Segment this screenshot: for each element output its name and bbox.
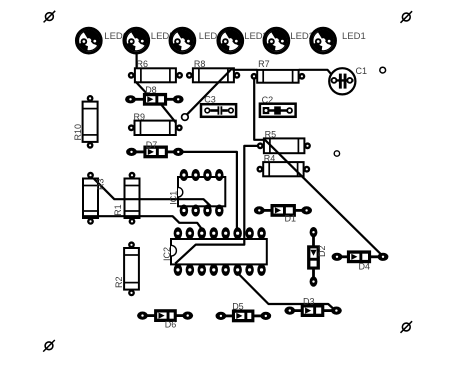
diode D8 leads [131,98,145,101]
wire R6 corner to D8 (diagonal) [136,82,148,95]
diode D7 body [143,146,168,159]
IC2 pin 9 bottom pad [257,264,266,276]
resistor R7 right pad [299,73,306,80]
IC2 pin 2 top pad [186,227,195,239]
svg-text:D1: D1 [285,214,297,224]
LED LED1 [311,28,336,53]
wire R3 to IC1 pad [94,179,211,206]
resistor R1 body [125,179,140,219]
svg-text:IC1: IC1 [168,191,178,205]
wire R7 pad down to R5 corner [254,79,264,140]
LED LED6 [77,28,102,53]
diode D1 left pad [254,206,265,214]
IC2 pin 15 bottom pad [186,264,195,276]
IC2 body [171,239,267,264]
via hole near C1 [380,67,386,73]
diode D5 leads [221,314,233,317]
resistor R8 right pad [234,72,241,79]
wire D7 to IC2 pin 6 [178,152,237,230]
IC1 pin 5 bottom pad [215,205,224,217]
diode D6 leads [143,314,156,317]
wire D8 to R9 corner (diagonal) [161,104,176,123]
capacitor C3 [201,104,236,117]
svg-text:D7: D7 [146,140,158,150]
svg-text:D4: D4 [359,261,371,271]
resistor R6 left pad [128,72,135,79]
svg-text:C2: C2 [262,95,274,105]
svg-text:R2: R2 [114,276,124,288]
capacitor C2 [260,104,296,117]
resistor R9 left pad [128,124,135,131]
resistor R5 body [264,138,305,153]
diode D1 body [271,204,296,217]
IC2 pin 16 bottom pad [174,264,183,276]
IC2 pin 11 bottom pad [233,264,242,276]
wire LED2 to R6 [136,53,138,69]
svg-text:C3: C3 [204,95,216,105]
svg-text:D8: D8 [145,85,157,95]
resistor R8 body [193,68,234,82]
diode D4 leads [337,255,348,258]
diode D4 body [347,250,371,263]
diode D1 leads [259,209,271,212]
wire IC2 pin 14 to D3 [237,273,335,311]
resistor R10 top pad [87,95,94,102]
svg-text:D5: D5 [232,302,244,312]
mounting hole bottom-left [43,340,55,352]
diode D7 right pad [173,148,184,156]
wire R5 pad to IC2 pin 1 [175,146,260,264]
wire R8 to R7 [232,69,257,71]
diode D3 right pad [331,307,342,315]
IC2 pin 10 bottom pad [245,264,254,276]
svg-text:R5: R5 [265,129,277,139]
IC2 pin 14 bottom pad [198,264,207,276]
LED LED4 [170,28,195,53]
diode D8 left pad [125,95,136,103]
resistor R10 body [83,102,98,142]
resistor R3 top pad [87,172,94,179]
IC2 pin 4 top pad [210,227,219,239]
wire R8 corner to open pad (diagonal) [186,69,232,116]
IC1 pin 6 bottom pad [203,205,212,217]
wire R5 corner to D4 (diagonal) [264,139,382,256]
via hole near R5 [334,151,339,156]
diode D3 leads [290,309,302,312]
IC1 pin 3 top pad [203,169,212,181]
wire R7 to C1 [299,70,335,78]
IC2 pin 1 top pad [174,227,183,239]
diode D4 right pad [378,253,389,261]
LED LED5 [124,28,149,53]
diode D5 right pad [260,312,271,320]
diode D7 left pad [126,148,137,156]
open pad (junction near R9/C3) [182,114,189,121]
IC1 pin 2 top pad [191,169,200,181]
resistor R1 top pad [129,172,136,179]
resistor R1 bottom pad [129,218,136,225]
diode D2 top pad [310,227,318,237]
diode D2 body [307,245,320,269]
diode D3 left pad [284,307,295,315]
IC1 pin 4 top pad [215,169,224,181]
resistor R5 right pad [304,142,311,149]
diode D8 body [143,93,167,106]
svg-text:R7: R7 [258,59,270,69]
resistor R4 body [263,162,303,176]
IC2 pin 7 top pad [245,227,254,239]
resistor R6 body [135,68,176,82]
svg-text:R6: R6 [137,59,149,69]
resistor R6 right pad [176,72,183,79]
resistor R9 body [135,121,176,135]
op-amp IC1 body [178,177,225,206]
capacitor C1 [329,68,355,94]
svg-text:R1: R1 [113,204,123,216]
svg-text:R4: R4 [264,153,276,163]
IC2 pin 3 top pad [198,227,207,239]
LED LED2 [264,28,289,53]
resistor R4 right pad [303,166,310,173]
resistor R3 body [83,179,98,219]
resistor R2 top pad [128,241,135,248]
mounting hole top-left [44,11,56,23]
resistor R3 bottom pad [87,218,94,225]
resistor R7 body [257,70,298,83]
svg-text:D6: D6 [165,320,177,330]
resistor R2 body [124,248,139,290]
resistor R2 bottom pad [128,290,135,297]
diode D5 left pad [216,312,227,320]
diode D2 leads [312,232,315,246]
diode D6 right pad [182,312,193,320]
IC2 pin 13 bottom pad [210,264,219,276]
svg-text:D2: D2 [317,245,327,257]
diode D7 leads [132,150,145,153]
svg-text:R8: R8 [194,59,206,69]
diode D1 right pad [301,206,312,214]
resistor R4 left pad [257,166,264,173]
IC1 pin 7 bottom pad [191,205,200,217]
svg-text:R10: R10 [73,124,83,141]
svg-text:IC2: IC2 [162,247,172,261]
IC2 pin 8 top pad [257,227,266,239]
svg-text:D3: D3 [303,296,315,306]
LED LED3 [218,28,243,53]
diode D3 body [301,304,325,317]
IC1 pin 8 bottom pad [180,205,189,217]
mounting hole top-right [401,11,413,23]
diode D6 body [154,309,177,322]
svg-text:C1: C1 [356,66,368,76]
svg-text:R9: R9 [134,112,146,122]
resistor R5 left pad [257,142,264,149]
resistor R7 left pad [251,73,258,80]
resistor R8 left pad [186,72,193,79]
IC1 pin 1 top pad [180,169,189,181]
svg-text:LED1: LED1 [342,31,366,42]
diode D4 left pad [332,253,343,261]
IC2 pin 6 top pad [233,227,242,239]
diode D5 body [232,310,255,323]
diode D8 right pad [173,95,184,103]
svg-text:R3: R3 [96,178,106,190]
IC2 pin 12 bottom pad [221,264,230,276]
wire R3 bottom to IC2 pin 3 [83,216,202,229]
resistor R9 right pad [176,124,183,131]
mounting hole bottom-right [401,321,413,333]
diode D6 left pad [137,312,148,320]
diode D2 bottom pad [310,276,318,286]
resistor R10 bottom pad [87,142,94,149]
IC2 pin 5 top pad [221,227,230,239]
